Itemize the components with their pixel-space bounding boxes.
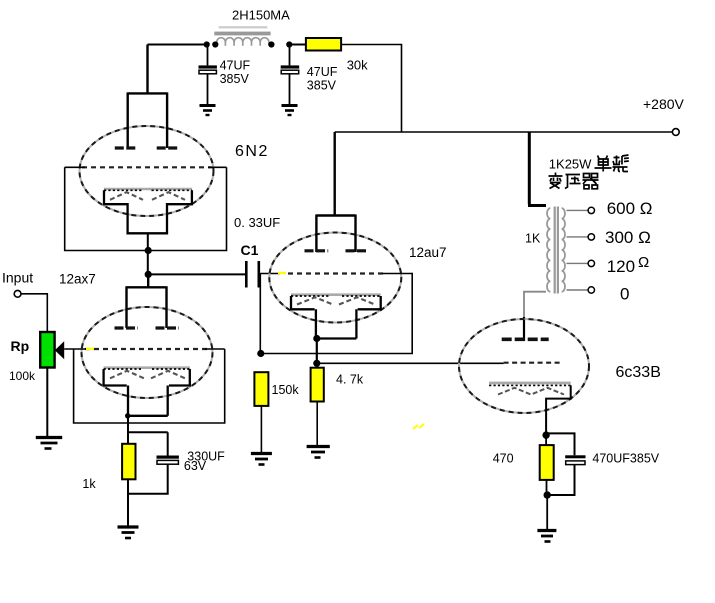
wire C1 right to 12au7 grid — [260, 273, 280, 275]
6N2 grid line — [82, 166, 212, 168]
12au7 plate bars — [305, 249, 369, 252]
svg-text:600 Ω: 600 Ω — [607, 199, 653, 218]
inductor L1 2H150MA core bars — [214, 26, 270, 35]
wire to C1 — [148, 273, 245, 275]
12au7 plate cap — [316, 132, 355, 252]
wire Rp to ground — [46, 368, 48, 437]
transformer primary drop (thick) — [528, 132, 546, 206]
svg-text:385V: 385V — [220, 72, 250, 86]
svg-text:470UF385V: 470UF385V — [592, 452, 659, 466]
wire 30k to corner and down to main bus — [341, 45, 401, 133]
resistor 30k — [306, 38, 341, 51]
yellow smudge — [413, 424, 424, 429]
node 12ax7 cathode join — [125, 413, 130, 418]
ground 1k — [118, 527, 139, 538]
ground cap1 — [200, 106, 216, 116]
junction dots top bus — [204, 41, 210, 47]
wire grid-leak bottom rail — [261, 273, 412, 354]
transformer primary coil — [547, 208, 550, 292]
capacitor 470UF385V — [546, 433, 585, 495]
potentiometer Rp — [40, 332, 54, 368]
node 150k top junction — [257, 350, 264, 357]
resistor 470 — [540, 445, 554, 480]
tube 12au7 envelope — [269, 233, 401, 323]
12ax7 plate bars — [115, 326, 180, 329]
wire C1 down to 150k — [259, 274, 261, 354]
node SRPP output junction — [145, 271, 152, 278]
tube 12ax7 envelope — [82, 307, 213, 398]
ground cap2 — [282, 106, 298, 116]
6N2 plate cap — [128, 45, 167, 149]
6N2 cathode assembly — [104, 189, 192, 233]
svg-text:12ax7: 12ax7 — [59, 272, 96, 287]
node cathode/output junction — [313, 360, 320, 367]
svg-text:470: 470 — [493, 452, 514, 466]
tap wire 300 — [567, 236, 589, 238]
terminal +280V — [672, 129, 679, 136]
6c33B cathode lead — [546, 385, 571, 435]
inductor L1 coil loops — [217, 38, 269, 46]
svg-text:Input: Input — [2, 270, 33, 286]
tap wire 600 — [567, 209, 589, 211]
label 变压器 (hand drawn) — [549, 173, 599, 189]
yellow mark grid 12ax7 — [86, 348, 94, 350]
12au7 cathode lead down — [316, 339, 318, 368]
yellow mark grid 12au7 — [278, 272, 286, 274]
ground 6c33B — [537, 531, 556, 542]
svg-text:6N2: 6N2 — [235, 143, 269, 160]
tube 6N2 envelope — [80, 126, 214, 216]
tap wire 120 — [567, 262, 589, 264]
svg-text:150k: 150k — [272, 383, 300, 397]
svg-text:1k: 1k — [82, 477, 96, 491]
svg-text:0: 0 — [620, 285, 629, 304]
node 12au7 cathode join — [313, 335, 320, 342]
wire cathode to 330UF top — [128, 431, 168, 433]
wire input to Rp — [21, 294, 47, 332]
6c33B cathode — [489, 383, 571, 395]
tap wire 0 — [567, 289, 589, 291]
Rp wiper arrow — [55, 341, 64, 359]
node cathode top junction — [542, 431, 549, 438]
svg-text:100k: 100k — [9, 369, 36, 383]
wire main B+ bus — [335, 131, 672, 133]
svg-text:300 Ω: 300 Ω — [605, 228, 651, 247]
terminal 300 — [588, 234, 594, 240]
wire to ground 6c33B — [546, 495, 548, 529]
6c33B grid line — [504, 362, 561, 364]
resistor 150k — [254, 372, 268, 406]
svg-text:Ω: Ω — [638, 254, 649, 271]
12au7 grid line — [288, 272, 384, 274]
svg-text:63V: 63V — [184, 459, 207, 473]
capacitor 330UF/63V — [128, 432, 179, 494]
terminal 120 — [588, 260, 594, 266]
12au7 cathode assembly — [291, 295, 381, 339]
svg-text:30k: 30k — [347, 58, 368, 73]
svg-text:1K: 1K — [525, 232, 541, 246]
node cathode bottom junction — [544, 491, 551, 498]
svg-text:4. 7k: 4. 7k — [336, 373, 364, 387]
wire top bus left segment — [148, 44, 208, 46]
6c33B plate bar — [502, 337, 549, 341]
svg-text:Rp: Rp — [11, 338, 30, 354]
svg-text:12au7: 12au7 — [409, 245, 447, 260]
terminal 600 — [588, 207, 594, 213]
svg-text:0. 33UF: 0. 33UF — [234, 215, 280, 230]
svg-text:+280V: +280V — [643, 96, 685, 112]
ground Rp — [36, 438, 62, 449]
svg-text:120: 120 — [607, 257, 635, 276]
transformer core — [555, 207, 558, 294]
12ax7 grid box — [74, 349, 225, 423]
470 leads — [545, 435, 547, 495]
svg-text:2H150MA: 2H150MA — [232, 8, 290, 23]
12ax7 cathode assembly — [104, 368, 190, 416]
resistor 1k — [122, 444, 135, 480]
wire 4.7k to ground — [316, 402, 318, 446]
capacitor C 47UF/385V #1 — [199, 45, 217, 105]
label 单端 (hand drawn) — [595, 155, 629, 172]
wire inductor-to-cap2 segment — [290, 44, 306, 46]
svg-text:47UF: 47UF — [220, 59, 251, 73]
terminal input — [14, 290, 21, 297]
svg-text:1K25W: 1K25W — [549, 157, 592, 172]
svg-text:47UF: 47UF — [307, 65, 338, 79]
tube 6c33B envelope — [459, 319, 589, 413]
svg-text:6c33B: 6c33B — [616, 364, 661, 381]
svg-text:385V: 385V — [307, 79, 337, 93]
6N2 plate bars — [115, 146, 180, 149]
ground 4.7k — [307, 447, 330, 458]
resistor 4.7k — [311, 368, 324, 402]
wire primary to 6c33B plate — [523, 317, 525, 341]
transformer primary bottom lead — [524, 292, 546, 317]
12ax7 grid line — [85, 348, 210, 350]
ground 150k — [251, 454, 272, 465]
wire 1k bottom to ground — [127, 479, 129, 525]
svg-text:C1: C1 — [241, 242, 259, 258]
wire 150k to ground — [260, 406, 262, 452]
capacitor C 47UF/385V #2 — [281, 45, 300, 105]
6N2 cathode lead — [147, 233, 149, 274]
12ax7 cathode lead down — [127, 416, 129, 444]
12ax7 plate cap — [127, 274, 167, 328]
transformer secondary coil — [562, 208, 565, 292]
terminal 0 — [588, 287, 594, 293]
capacitor C1 — [246, 261, 258, 288]
wire 12au7 cathode to 6c33B grid — [317, 362, 504, 364]
6N2 grid box — [65, 167, 227, 250]
node 6N2 cathode/box junction — [145, 247, 152, 254]
